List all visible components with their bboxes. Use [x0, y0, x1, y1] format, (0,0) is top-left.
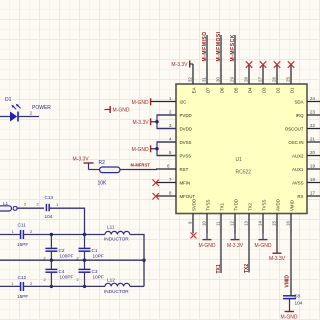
capacitor C2 100PF	[45, 233, 73, 262]
no-connect X pin 28	[246, 61, 253, 68]
wire pin32 to M-3.3V	[190, 63, 193, 65]
power port M-3.3V pin12	[227, 240, 244, 249]
pin 28 D4	[244, 64, 253, 93]
svg-text:TVSS: TVSS	[262, 199, 267, 211]
power port M-3.3V pin15	[269, 253, 286, 262]
resistor R2 10K	[98, 160, 121, 186]
svg-text:2: 2	[44, 278, 46, 282]
svg-text:24: 24	[310, 96, 315, 101]
wire M-3.3V to R2	[89, 169, 100, 171]
svg-text:D7: D7	[206, 87, 211, 93]
pin 14 TVSS	[258, 199, 267, 233]
svg-text:10: 10	[202, 221, 207, 226]
svg-text:100PF: 100PF	[60, 274, 74, 279]
svg-text:C12: C12	[18, 275, 27, 280]
pin 13 TX2	[244, 202, 253, 233]
svg-text:M-3.3V: M-3.3V	[171, 62, 188, 68]
pin 22 OSCOUT	[285, 123, 320, 132]
svg-text:14: 14	[258, 221, 263, 226]
svg-text:MFIN: MFIN	[180, 181, 191, 186]
svg-text:M-MFSCK: M-MFSCK	[230, 34, 236, 61]
svg-text:M-GND: M-GND	[132, 147, 149, 153]
svg-text:AVSS: AVSS	[292, 181, 303, 186]
pin 24 SDA	[294, 96, 320, 105]
inductor L1 (edge, partial)	[0, 201, 27, 211]
power port M-GND pin14	[255, 240, 272, 249]
svg-text:OSC IN: OSC IN	[288, 140, 303, 145]
svg-text:D5: D5	[234, 87, 239, 93]
power port M-3.3V pins 2-3	[132, 118, 150, 126]
svg-text:M-MFRST: M-MFRST	[131, 162, 151, 167]
svg-text:D6: D6	[220, 87, 225, 93]
pin 32 EA	[188, 64, 197, 93]
svg-text:D4: D4	[248, 87, 253, 93]
wire row2 C11 to L11	[23, 234, 105, 236]
pin 10 TVSS	[202, 199, 211, 233]
svg-text:AUX1: AUX1	[292, 167, 304, 172]
svg-text:INDUCTOR: INDUCTOR	[104, 289, 129, 294]
no-connect X pin 8	[153, 193, 160, 200]
pin 20 AUX2	[292, 150, 320, 159]
svg-text:26: 26	[272, 77, 277, 82]
svg-text:TX1: TX1	[216, 264, 222, 273]
svg-text:M-3.3V: M-3.3V	[132, 120, 149, 126]
wire pin10 to M-GND	[206, 234, 208, 240]
svg-text:MFOUT: MFOUT	[180, 194, 196, 199]
wire L12 to vertical	[130, 285, 144, 287]
svg-text:EA: EA	[192, 87, 197, 93]
svg-text:C2: C2	[59, 248, 65, 253]
svg-text:L12: L12	[107, 278, 115, 283]
svg-text:AVDD: AVDD	[276, 199, 281, 211]
power port M-GND (C8)	[281, 312, 298, 320]
pin 29 D5	[230, 64, 239, 93]
junction row3-vertical	[142, 259, 145, 262]
pin 17 RX	[297, 190, 320, 199]
svg-text:SVDD: SVDD	[192, 199, 197, 211]
pin 8 MFOUT	[156, 190, 195, 199]
wire row2 left	[0, 234, 21, 236]
power port M-GND pin1	[132, 98, 151, 106]
wire pin29, net M-MFSCK	[230, 34, 236, 64]
svg-text:TX2: TX2	[248, 202, 253, 211]
capacitor C3 10PF	[79, 260, 104, 288]
svg-text:U1: U1	[236, 157, 243, 163]
svg-text:16: 16	[286, 221, 291, 226]
wire bracket pins 2-3	[151, 115, 176, 129]
svg-text:30: 30	[216, 77, 221, 82]
svg-text:TVDD: TVDD	[234, 199, 239, 211]
wire L11 to vertical	[130, 235, 144, 287]
svg-text:DVDD: DVDD	[180, 127, 192, 132]
inductor L12	[104, 278, 130, 294]
wire C8 to M-GND	[289, 299, 291, 312]
svg-text:17: 17	[310, 190, 315, 195]
capacitor C1 10PF	[79, 233, 104, 262]
capacitor C12 15PF	[12, 275, 34, 299]
power port M-3.3V pin32	[171, 61, 189, 69]
svg-text:OSCOUT: OSCOUT	[285, 127, 304, 132]
svg-text:RX: RX	[297, 194, 303, 199]
svg-text:M-3.3V: M-3.3V	[269, 256, 286, 262]
svg-text:2: 2	[77, 278, 79, 282]
svg-text:VMID: VMID	[285, 275, 291, 288]
svg-text:I2C: I2C	[180, 100, 187, 105]
svg-text:15PF: 15PF	[17, 242, 28, 247]
inductor L11	[104, 225, 130, 242]
power port M-GND (floating)	[105, 106, 130, 114]
wire R2 to pin 6, net M-MFRST	[120, 162, 157, 169]
svg-text:IRQ: IRQ	[296, 113, 304, 118]
svg-text:10K: 10K	[98, 180, 108, 186]
capacitor C8 104	[283, 293, 303, 305]
pin 21 OSCIN	[288, 136, 320, 145]
pin 12 TVDD	[230, 199, 239, 233]
no-connect X pin 25	[288, 61, 295, 68]
no-connect X pin 9	[191, 233, 197, 239]
svg-text:2: 2	[77, 257, 79, 261]
wire pin13, net TX2	[244, 234, 250, 274]
svg-text:M-GND: M-GND	[281, 314, 298, 320]
wire bracket pins 4-5	[151, 142, 176, 156]
svg-text:21: 21	[310, 136, 315, 141]
svg-text:TX1: TX1	[220, 202, 225, 211]
no-connect X pin 27	[260, 61, 267, 68]
wire pin16, net VMID	[285, 234, 292, 296]
pin 31 D7	[202, 64, 211, 93]
pin 2 PVDD	[157, 109, 192, 118]
svg-text:13: 13	[244, 221, 249, 226]
wire pin12 to M-3.3V	[234, 234, 236, 240]
svg-text:VMID: VMID	[290, 200, 295, 211]
svg-text:M-GND: M-GND	[132, 100, 149, 106]
wire pin15 to M-3.3V	[276, 234, 278, 254]
pin 23 IRQ	[296, 109, 320, 118]
wire row4 C12 to L12	[23, 285, 105, 287]
svg-text:19: 19	[310, 163, 315, 168]
svg-text:TVSS: TVSS	[206, 199, 211, 211]
svg-text:SDA: SDA	[294, 100, 303, 105]
svg-text:M-GND: M-GND	[113, 108, 130, 114]
svg-text:POWER: POWER	[32, 105, 51, 111]
svg-text:104: 104	[45, 214, 53, 219]
svg-text:M-GND: M-GND	[199, 243, 216, 249]
svg-text:INDUCTOR: INDUCTOR	[104, 237, 129, 242]
pin 1 I2C	[151, 96, 186, 105]
svg-text:C1: C1	[92, 248, 98, 253]
pin 26 D2	[272, 64, 281, 93]
LED D1	[0, 97, 39, 122]
svg-text:D3: D3	[262, 87, 267, 93]
wire pin30, net M-MFMOSI	[216, 31, 222, 64]
svg-text:C13: C13	[45, 195, 54, 200]
svg-text:11: 11	[216, 221, 221, 226]
svg-text:TX2: TX2	[244, 264, 250, 273]
power port M-GND pins 4-5	[132, 145, 151, 153]
svg-text:15: 15	[272, 221, 277, 226]
svg-text:27: 27	[258, 77, 263, 82]
svg-text:29: 29	[230, 77, 235, 82]
pin 4 DVSS	[157, 136, 192, 145]
svg-text:PVSS: PVSS	[180, 154, 192, 159]
svg-text:RST: RST	[180, 167, 189, 172]
pin 6 RST	[156, 163, 189, 172]
pin 7 MFIN	[156, 177, 190, 186]
pin 9 SVDD	[188, 199, 197, 234]
svg-text:C8: C8	[294, 293, 300, 298]
capacitor C13 104	[37, 195, 60, 219]
power port M-GND pin10	[199, 240, 216, 249]
svg-text:L11: L11	[107, 225, 115, 230]
svg-text:10PF: 10PF	[93, 254, 104, 259]
svg-text:32: 32	[188, 77, 193, 82]
wire pin14 to M-GND	[262, 234, 264, 240]
svg-text:22: 22	[310, 123, 315, 128]
wire pin11, net TX1	[216, 234, 222, 274]
svg-text:R2: R2	[99, 160, 106, 166]
svg-text:RC522: RC522	[236, 170, 252, 176]
svg-text:DVSS: DVSS	[180, 140, 192, 145]
svg-text:C11: C11	[18, 223, 27, 228]
pin 3 DVDD	[157, 123, 192, 132]
pin 11 TX1	[216, 202, 225, 233]
pin 5 PVSS	[157, 150, 191, 159]
wire pin31, net M-MFMISO	[202, 31, 208, 64]
wire C13 to corner	[49, 208, 84, 234]
pin 30 D6	[216, 64, 225, 93]
svg-text:D1: D1	[5, 97, 12, 103]
wire row4 left	[0, 285, 21, 287]
svg-text:100PF: 100PF	[60, 254, 74, 259]
svg-text:28: 28	[244, 77, 249, 82]
no-connect X pin 26	[274, 61, 281, 68]
power port M-3.3V (R2)	[73, 157, 94, 170]
pin 27 D3	[258, 64, 267, 93]
svg-text:PVDD: PVDD	[180, 113, 192, 118]
pin 18 AVSS	[292, 177, 320, 186]
pin 16 VMID	[286, 200, 295, 233]
svg-text:23: 23	[310, 109, 315, 114]
IC U1 RC522 body	[176, 84, 307, 214]
svg-text:D1: D1	[290, 87, 295, 93]
svg-text:M-3.3V: M-3.3V	[73, 157, 90, 163]
pin 19 AUX1	[292, 163, 320, 172]
pin 25 D1	[286, 64, 295, 93]
svg-text:M-MFMISO: M-MFMISO	[202, 31, 208, 61]
wire L1 to C13	[17, 207, 44, 209]
svg-text:104: 104	[295, 301, 303, 306]
no-connect X pin 7	[153, 180, 160, 187]
wire row3	[0, 259, 144, 261]
svg-text:25: 25	[286, 77, 291, 82]
capacitor C4 100PF	[45, 260, 73, 288]
svg-text:2: 2	[44, 257, 46, 261]
svg-text:M-3.3V: M-3.3V	[227, 243, 244, 249]
svg-text:M-GND: M-GND	[255, 243, 272, 249]
svg-text:C3: C3	[92, 269, 98, 274]
svg-text:15PF: 15PF	[17, 294, 28, 299]
svg-text:31: 31	[202, 77, 207, 82]
svg-text:C4: C4	[59, 269, 65, 274]
svg-text:18: 18	[310, 177, 315, 182]
svg-text:20: 20	[310, 150, 315, 155]
capacitor C11 15PF	[12, 223, 34, 247]
svg-text:M-MFMOSI: M-MFMOSI	[216, 31, 222, 61]
pin 15 AVDD	[272, 199, 281, 233]
svg-text:AUX2: AUX2	[292, 154, 304, 159]
svg-text:12: 12	[230, 221, 235, 226]
svg-text:D2: D2	[276, 87, 281, 93]
svg-text:10PF: 10PF	[93, 274, 104, 279]
svg-text:L1: L1	[3, 201, 9, 206]
